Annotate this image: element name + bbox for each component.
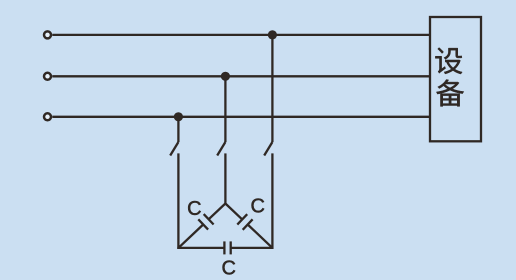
junction dot on L2 [221, 72, 230, 81]
wire left capacitor to left corner [178, 225, 203, 248]
terminal L2 [44, 73, 51, 80]
svg-text:C: C [250, 195, 264, 217]
switch S3 blade [264, 142, 272, 156]
capacitor C2 plates [237, 214, 247, 224]
wire tap from L2 [224, 76, 226, 142]
svg-text:C: C [221, 258, 235, 280]
wire below S3 [271, 153, 273, 249]
wire L2 [52, 75, 430, 77]
switch S1 blade [170, 142, 178, 156]
wire L3 [52, 116, 430, 118]
wire below S2 [224, 153, 226, 203]
wire tap from L1 [271, 35, 273, 142]
device box text 设 [435, 48, 462, 74]
terminal L3 [44, 113, 51, 120]
junction dot on L3 [174, 112, 183, 121]
junction dot on L1 [268, 30, 277, 39]
capacitor C3 plates [223, 241, 225, 254]
switch S2 blade [217, 142, 225, 156]
wire tap from L3 [177, 117, 179, 142]
terminal L1 [44, 31, 51, 38]
capacitor C1 plates [204, 214, 214, 224]
wire bottom left [177, 247, 224, 249]
svg-text:C: C [187, 198, 201, 220]
wire apex to left capacitor [209, 204, 226, 220]
wire apex to right capacitor [225, 204, 242, 220]
device box [430, 17, 481, 141]
wire L1 [52, 34, 430, 36]
wire right capacitor to right corner [248, 225, 273, 248]
wire bottom right [231, 247, 274, 249]
wire below S1 [177, 153, 179, 249]
device box text 备 [436, 79, 464, 106]
